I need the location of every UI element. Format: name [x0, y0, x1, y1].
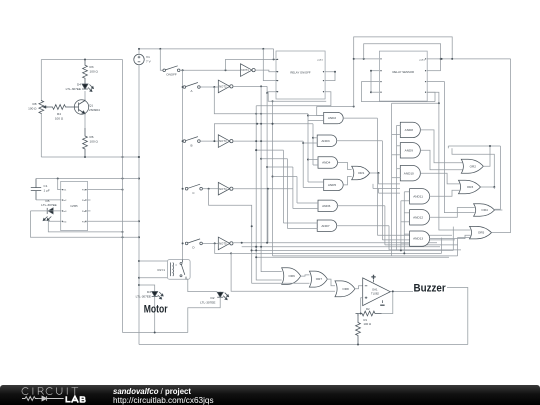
feeder vertical right column A [391, 103, 393, 256]
inverter NOT4 [218, 182, 233, 195]
wire wrap to Pin4 right [427, 92, 435, 101]
wire AND12 to OR4 [430, 208, 475, 218]
gate AND4 [318, 157, 337, 168]
trunk vertical to OR6 lower [255, 106, 282, 280]
svg-text:path1: path1 [318, 58, 324, 61]
resistor R1 [356, 314, 361, 345]
stub OR4 out [494, 208, 496, 211]
wire switch C to NOT4 [203, 188, 219, 190]
gate OR3 [459, 180, 481, 194]
wire coil top to bus2 [139, 260, 167, 262]
gate OR2 [461, 159, 483, 173]
wire OR7 to OR8 [327, 279, 335, 286]
wire A tap trunk [214, 87, 308, 115]
bundle row aux [273, 255, 458, 257]
bottom rail [139, 344, 468, 346]
wire sensor Pin1 right long [427, 58, 510, 60]
gate OR1 [352, 166, 370, 179]
svg-text:OR5: OR5 [478, 231, 485, 235]
gate AND12 [410, 210, 430, 225]
wire C trunk to OR7 lower input [252, 282, 310, 284]
gate AND7 [317, 220, 336, 231]
wire sensor Pin4 left [371, 91, 379, 93]
svg-text:D3: D3 [147, 290, 151, 294]
wire V1 plus to top rail [138, 49, 140, 54]
wire NOT2 out [233, 85, 267, 87]
feeder vertical right column B [396, 125, 398, 249]
wire AND7 out [337, 225, 389, 227]
gate OR8 [335, 281, 355, 297]
LED D4 [82, 84, 94, 92]
wire AND2 out [343, 117, 377, 119]
svg-text:LTL-307EE: LTL-307EE [66, 87, 81, 91]
svg-text:AND13: AND13 [413, 237, 423, 241]
wire sensor Pin2 left [371, 70, 379, 72]
potentiometer R8 [28, 100, 47, 114]
wire trunk row 176 [273, 176, 298, 178]
hook vertical to OR5 lower [458, 238, 471, 256]
wire D tap [215, 243, 232, 254]
bus3 switch chain [182, 70, 184, 259]
wire NOT2 out to Pin4 [266, 86, 276, 94]
inverter NOT1 [241, 64, 256, 77]
wire relay NC wrap [256, 92, 331, 106]
wire tap to relay Pin1 [226, 58, 277, 70]
wire Pin2-Pin4 tie [370, 70, 372, 94]
svg-text:7 V: 7 V [146, 60, 152, 64]
trunk vertical C inverted [267, 189, 269, 243]
wire switch A to NOT2 [200, 86, 218, 88]
trunk vertical T4 [266, 93, 268, 243]
transistor Q1 [72, 100, 100, 115]
gate AND5 [324, 179, 343, 190]
wire AND5 out to OR1 [343, 177, 352, 185]
wire OR4 out [495, 209, 503, 211]
LED D5 [41, 199, 56, 221]
op-amp OA1 [363, 275, 391, 306]
svg-text:AND10: AND10 [404, 171, 414, 175]
wire Pin3 through D5 [31, 210, 61, 212]
pin dots RELAY SENSOR [380, 58, 426, 93]
inverter NOT2 [218, 80, 233, 93]
grid vertical g7 [312, 124, 314, 165]
grid vertical g2 [287, 159, 289, 229]
right side long vertical [510, 59, 512, 233]
gate AND6 [318, 200, 337, 211]
svg-text:100 Ω: 100 Ω [90, 140, 99, 144]
LED D3 [152, 292, 164, 300]
bundle row E [255, 256, 449, 258]
svg-text:NOT3: NOT3 [219, 139, 227, 143]
svg-text:AND4: AND4 [322, 161, 331, 165]
wire trunk row 150 [255, 149, 283, 151]
CircuitLab logo [0, 385, 110, 405]
vertical AND3 out [381, 141, 383, 240]
svg-text:OR7: OR7 [316, 277, 323, 281]
trunk vertical T5 [272, 100, 274, 256]
svg-text:V1: V1 [146, 55, 150, 59]
feeder vertical right column C [403, 192, 405, 255]
wire left lower [40, 114, 42, 157]
wire sensor Pin3 right [427, 82, 444, 125]
svg-text:TL082: TL082 [371, 292, 379, 296]
wire B tap up row [214, 123, 313, 141]
svg-text:NOT4: NOT4 [219, 187, 227, 191]
wire C tap trunk [209, 189, 253, 284]
svg-text:1 μF: 1 μF [44, 189, 50, 193]
wire bottom of transistor block [41, 156, 140, 158]
trunk vertical NOT2 branch to OR6 upper [260, 86, 282, 271]
gate AND3 [317, 135, 336, 146]
wire NOT4 out feeder [233, 188, 292, 190]
bundle row A signal [251, 249, 454, 251]
grid vertical g5 [302, 141, 304, 187]
wire AND4 out to OR1 [338, 163, 352, 170]
svg-text:D2: D2 [211, 296, 215, 300]
wire sensor feed to OR5 [439, 125, 471, 230]
stub D2 top [219, 291, 221, 293]
stub [316, 107, 318, 108]
wire sensor outer wrap [354, 37, 453, 107]
svg-text:C: C [192, 191, 195, 195]
relay RLY1 [157, 260, 190, 280]
wire OR6 to OR7 [300, 275, 309, 276]
svg-text:100 Ω: 100 Ω [28, 107, 37, 111]
feeder vertical right column D [400, 201, 402, 252]
stub R1 top [357, 314, 359, 317]
bundle row AND2 [377, 234, 452, 236]
wire right wrap rect [495, 146, 501, 209]
switch D [185, 239, 202, 250]
wire NOT3 out feeder [233, 140, 303, 142]
wire C1 bottom to Pin2 [36, 199, 61, 201]
wire OR3 out wrap [452, 148, 495, 188]
svg-text:Motor: Motor [144, 304, 168, 316]
wire rail drop to Pin3 [263, 49, 276, 81]
wire D2 bottom loop [188, 297, 220, 332]
svg-text:NOT1: NOT1 [241, 68, 249, 72]
switch A [183, 83, 200, 94]
wire to OR8 lower input [231, 253, 335, 291]
bundle row AND6 [385, 244, 458, 246]
wire trunk row 167 [267, 166, 293, 168]
svg-text:LTL-307EE: LTL-307EE [41, 203, 56, 207]
wire RLY1 out to D2 [186, 279, 217, 291]
svg-text:A: A [190, 89, 192, 93]
switch C [185, 184, 202, 195]
wire OR2 wrap ext [489, 145, 500, 147]
stub OR2 wrap [447, 146, 449, 148]
wire coil bottom to bus2 [139, 277, 167, 279]
wire top of transistor block [41, 59, 122, 61]
wire feedback down [382, 290, 394, 313]
node [494, 209, 496, 211]
wire OR1 out [370, 172, 380, 174]
wire AND9 to OR2 [420, 150, 462, 170]
inverter NOT5 [218, 237, 233, 250]
gate AND13 [410, 231, 430, 246]
svg-text:lm555: lm555 [70, 204, 78, 208]
svg-text:100 Ω: 100 Ω [364, 322, 372, 326]
wire op-amp out to Buzzer label [390, 290, 413, 292]
wire to Pin1 [58, 179, 61, 190]
svg-text:R2: R2 [366, 307, 370, 311]
hook vertical r4 [441, 238, 443, 254]
bundle row D tap [231, 252, 441, 254]
wire OR1 out drop [379, 173, 401, 184]
bundle row AND3 [382, 239, 455, 241]
svg-text:D5: D5 [46, 199, 50, 203]
wire D3 to sub-rail [154, 297, 156, 333]
resistor R4 [46, 105, 72, 110]
wire Pin4 loop [48, 221, 123, 233]
svg-text:100 Ω: 100 Ω [90, 70, 99, 74]
stub aux [372, 184, 374, 189]
wire sensor Pin3 wrap [362, 82, 436, 102]
sub-rail [123, 332, 188, 334]
wire trunk row 159 [261, 158, 287, 160]
svg-text:NOT2: NOT2 [219, 85, 227, 89]
pin dots lm555 [62, 189, 87, 222]
wire aux h1 [373, 188, 400, 190]
svg-text:OR2: OR2 [470, 164, 477, 168]
svg-text:OR1: OR1 [358, 171, 365, 175]
svg-text:AND3: AND3 [321, 139, 330, 143]
svg-text:LTL-307EE: LTL-307EE [136, 295, 151, 299]
svg-text:AND11: AND11 [413, 194, 423, 198]
wire AND11 to OR3 [430, 190, 460, 196]
gate AND2 [324, 112, 343, 123]
bundle row NOT5 out [233, 242, 437, 244]
svg-text:OR8: OR8 [342, 287, 349, 291]
inverter NOT3 [218, 135, 233, 148]
wire sensor Pin4 right down [392, 92, 440, 104]
wire AND13 to OR5 [430, 235, 471, 238]
wire switch B to NOT3 [200, 140, 218, 142]
wire sensor Pin1 left [353, 58, 380, 60]
wire OR8 to op-amp [355, 286, 363, 289]
top rail [138, 48, 274, 50]
svg-text:AND2: AND2 [328, 116, 337, 120]
gate OR7 [309, 271, 327, 287]
wire motor branch [139, 285, 155, 292]
bundle row AND7 [389, 249, 461, 251]
subcircuit RELAY ON/OFF [276, 51, 325, 99]
wire D4 cathode to Q1 collector [84, 91, 86, 100]
power bus from V1 minus [138, 65, 140, 345]
wire under-box link [317, 106, 355, 108]
wire NOT1 out to Pin2 [255, 70, 276, 72]
voltage source V1 [134, 54, 152, 64]
wire relay bottom wrap [268, 92, 326, 102]
gate AND8 [400, 122, 420, 137]
svg-text:AND5: AND5 [328, 183, 337, 187]
svg-text:path1: path1 [420, 58, 426, 61]
hook vertical r3 [452, 227, 454, 251]
svg-text:RELAY SENSOR: RELAY SENSOR [393, 70, 415, 74]
stub aux2 [378, 189, 380, 194]
svg-text:AND6: AND6 [322, 204, 331, 208]
svg-text:R3: R3 [90, 65, 94, 69]
subcircuit RELAY SENSOR [379, 51, 427, 101]
svg-text:LTL-307EE: LTL-307EE [200, 301, 215, 305]
wire AND6 out [337, 205, 385, 207]
wire C1 top to bus [36, 178, 139, 180]
wire feedback node [358, 313, 361, 315]
svg-text:AND8: AND8 [405, 128, 414, 132]
svg-text:NOT5: NOT5 [219, 242, 227, 246]
bus1 vertical [122, 60, 124, 333]
svg-text:OR4: OR4 [481, 208, 488, 212]
wire relay contacts tie [325, 71, 336, 81]
stub OR3 [493, 187, 495, 189]
vertical AND7 out [388, 226, 390, 250]
LED D2 [217, 292, 229, 300]
resistor R3 [83, 60, 88, 85]
switch SW-ONOFF [163, 66, 180, 77]
grid vertical g6 [307, 114, 309, 182]
wire AND8 to OR2 [420, 130, 462, 163]
gate OR4 [474, 204, 495, 217]
svg-text:ONOFF: ONOFF [166, 73, 177, 77]
wire OR2 out wrap [448, 146, 490, 166]
wire OR5 out to long vertical [492, 232, 511, 234]
gate AND10 [400, 166, 420, 181]
wire link to AND2 input [317, 107, 324, 116]
vertical into gates right [438, 103, 440, 125]
gate AND9 [400, 143, 420, 158]
resistor R6 [83, 128, 88, 157]
svg-text:Q1: Q1 [89, 104, 93, 108]
stub Pin6 [88, 210, 91, 212]
svg-text:AND9: AND9 [405, 148, 414, 152]
wire rail drop to Pin1 [273, 49, 275, 60]
wire Pin5 to bus2 [88, 220, 140, 222]
bundle row B [242, 246, 440, 248]
node2 [494, 209, 496, 211]
svg-text:D4: D4 [77, 83, 81, 87]
svg-text:R8: R8 [33, 102, 37, 106]
vertical AND6 out [384, 206, 386, 245]
svg-text:R6: R6 [90, 135, 94, 139]
svg-text:2N3904: 2N3904 [89, 108, 100, 112]
grid vertical g1 [282, 150, 284, 223]
svg-text:AND7: AND7 [321, 224, 330, 228]
svg-text:D: D [192, 246, 195, 250]
IC U1 lm555 box [61, 181, 88, 230]
wire rail to ONOFF switch [160, 49, 163, 70]
svg-text:100 Ω: 100 Ω [55, 117, 64, 121]
wire left upper [40, 60, 42, 101]
grid vertical g4 [296, 177, 298, 204]
switch B [183, 137, 200, 148]
wire AND3 out [337, 140, 383, 142]
svg-text:Buzzer: Buzzer [414, 282, 447, 294]
gate OR5 [470, 226, 492, 239]
capacitor C1 [31, 179, 50, 200]
wire feedback to plus input [360, 298, 363, 315]
svg-text:R4: R4 [57, 112, 61, 116]
vertical AND2 out [376, 118, 378, 235]
wire D5 anode loop [31, 211, 140, 238]
footer project text [113, 387, 214, 405]
svg-text:RLY1: RLY1 [157, 268, 165, 272]
svg-text:B: B [190, 143, 192, 147]
wire Q1 emitter to R6 [84, 115, 86, 129]
wire right AND input stubs [392, 125, 410, 243]
wire Pin8 to bus1 [88, 189, 124, 191]
stub Pin7 [88, 199, 91, 201]
wire sensor Pin2 right [427, 70, 440, 72]
svg-text:AND12: AND12 [413, 215, 423, 219]
svg-text:RELAY ON/OFF: RELAY ON/OFF [290, 70, 311, 74]
wire sensor feed to OR4 [444, 125, 474, 213]
wire AND10 to OR3 [420, 173, 459, 184]
pin dots RELAY ON/OFF [277, 59, 324, 93]
resistor R2 feedback [356, 311, 382, 316]
wire switch D to NOT5 [203, 242, 219, 244]
wire AND input stubs [283, 116, 323, 229]
svg-text:OR3: OR3 [467, 185, 474, 189]
wire Buzzer loop right [447, 288, 468, 345]
svg-text:OR6: OR6 [289, 274, 296, 278]
wire sensor inner wrap [364, 44, 442, 71]
gate AND11 [410, 189, 430, 204]
svg-text:C1: C1 [44, 184, 48, 188]
wire aux h2 [379, 192, 401, 194]
gate OR6 [282, 268, 301, 285]
grid vertical g3 [292, 167, 294, 209]
wire ONOFF to NOT1 [180, 69, 241, 71]
